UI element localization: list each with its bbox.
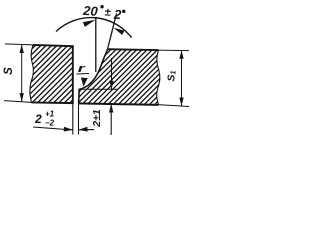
gap dim line left with arrow xyxy=(33,127,66,130)
bevel slant extension line xyxy=(108,14,117,50)
gap extension line left xyxy=(72,103,74,134)
gap dim line right with arrow xyxy=(79,129,95,131)
S1 dimension line xyxy=(181,50,183,106)
S1 bottom extension line xyxy=(156,105,189,107)
right plate top edge xyxy=(108,48,159,51)
S dimension line xyxy=(21,45,23,102)
S top extension line xyxy=(5,44,33,45)
left plate break line xyxy=(30,45,34,103)
left plate outline xyxy=(32,45,73,103)
root face extension line xyxy=(79,88,117,90)
S1 arrow bottom xyxy=(179,98,183,107)
angle vertical reference line xyxy=(95,17,97,72)
right plate break line xyxy=(157,50,160,105)
S1 top extension line xyxy=(156,49,189,52)
svg-text:20: 20 xyxy=(82,3,99,19)
S arrow bottom xyxy=(20,93,24,102)
right plate bevel face with radius xyxy=(79,49,108,103)
svg-text:2±1: 2±1 xyxy=(91,109,103,128)
gap extension line right xyxy=(78,104,80,135)
svg-text:S: S xyxy=(3,67,15,75)
r leader arrow xyxy=(81,78,88,87)
svg-text:−2: −2 xyxy=(45,119,55,128)
svg-text:±: ± xyxy=(104,6,111,18)
S arrow top xyxy=(20,45,24,54)
svg-text:+1: +1 xyxy=(45,110,55,119)
root face dim line lower with up arrow xyxy=(110,104,112,135)
angle dimension arc xyxy=(56,18,132,38)
angle arc arrow left xyxy=(83,20,96,27)
S1 arrow top xyxy=(179,50,183,59)
r leader shelf xyxy=(77,73,90,76)
right plate bottom edge xyxy=(79,103,159,105)
angle arc arrow right xyxy=(114,28,125,35)
svg-text:2: 2 xyxy=(34,112,42,126)
S bottom extension line xyxy=(4,101,32,103)
root face dim line upper with down arrow xyxy=(111,58,113,89)
label 20 deg pm 2 deg xyxy=(82,3,126,22)
